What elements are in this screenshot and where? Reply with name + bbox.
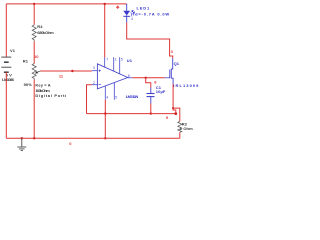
wire pin7 to top bus (104, 4, 106, 58)
svg-text:V1: V1 (10, 48, 16, 53)
junction dot pot bus (33, 137, 35, 139)
wire output jog to C1 (146, 78, 151, 88)
wire R4 to pot (33, 41, 35, 63)
resistor R2 (178, 121, 182, 132)
wire left vertical to battery (5, 4, 7, 57)
wire source to connector (173, 108, 176, 114)
svg-text:8: 8 (154, 79, 157, 84)
svg-text:7: 7 (106, 58, 108, 62)
op-amp - input stub (92, 84, 98, 86)
wire wiper to opamp + (41, 70, 92, 72)
pin 4 line (104, 86, 106, 100)
ground (17, 138, 26, 150)
resistor R4 (32, 25, 36, 41)
junction dot output (145, 77, 147, 79)
svg-text:6: 6 (128, 74, 130, 78)
wire pot bottom to bus (33, 80, 35, 139)
junction dot wiper wire (71, 70, 73, 72)
wire R4 top (33, 4, 35, 25)
junction dot source (172, 107, 174, 109)
capacitor C1 (147, 94, 155, 97)
LED LED1 anode lead (126, 4, 128, 11)
junction dot bus pin4 (104, 137, 106, 139)
op-amp - sign (99, 83, 101, 85)
svg-text:100kOhm: 100kOhm (35, 88, 50, 93)
node dot top R4 (33, 3, 35, 5)
wire bottom bus (6, 137, 180, 139)
svg-text:90%: 90% (24, 82, 33, 87)
potentiometer R1 zigzag (32, 64, 36, 80)
svg-text:9: 9 (166, 115, 169, 120)
pin 5 bottom line (113, 83, 115, 100)
pot wiper arrow (38, 71, 41, 72)
junction dot C1 connector (150, 112, 152, 114)
svg-text:IRL13009: IRL13009 (173, 83, 199, 88)
LED arrows (130, 10, 134, 15)
svg-text:LM741N: LM741N (126, 94, 139, 99)
svg-text:10: 10 (34, 54, 39, 59)
wire pin4 ground drop (104, 114, 106, 139)
svg-text:LED1: LED1 (137, 5, 150, 10)
pin 5 top line (119, 57, 121, 74)
wire battery bottom to bus (5, 72, 7, 138)
svg-text:10µF: 10µF (156, 89, 166, 94)
wire R2 bottom to bus (179, 132, 181, 138)
op-amp U1 triangle (97, 64, 127, 89)
svg-text:4: 4 (106, 95, 108, 99)
wire connector horizontal (87, 113, 176, 115)
svg-text:680kOhm: 680kOhm (37, 30, 54, 35)
pin 1 line (113, 57, 115, 71)
op-amp + sign (99, 70, 101, 72)
svg-text:1: 1 (115, 58, 117, 62)
transistor Q1 drain lead (171, 58, 172, 69)
svg-text:2: 2 (93, 81, 95, 85)
svg-text:11: 11 (59, 73, 64, 78)
svg-text:1 Ohm: 1 Ohm (180, 126, 193, 131)
svg-text:R1: R1 (23, 58, 29, 63)
capacitor C1 bottom lead (150, 97, 152, 104)
wire source down (172, 84, 174, 108)
transistor Q1 source lead (171, 78, 173, 84)
junction dot pin7 bus (104, 3, 106, 5)
wire LED cathode down right down (127, 22, 173, 58)
transistor Q1 gate stub (165, 77, 170, 79)
transistor Q1 channel bar (170, 69, 172, 79)
wire source branch to R2 (173, 108, 180, 121)
junction dot connector end (174, 112, 177, 115)
svg-text:Q1: Q1 (174, 61, 180, 66)
pin 7 line (104, 57, 106, 67)
capacitor C1 top lead (150, 88, 152, 94)
svg-text:R4: R4 (37, 24, 43, 29)
svg-text:5: 5 (115, 95, 117, 99)
wire - input feedback left (87, 85, 92, 114)
op-amp output stub (128, 77, 133, 79)
svg-text:(Id=-0.7A 0.0W: (Id=-0.7A 0.0W (131, 11, 169, 16)
junction dot pin4 connector (104, 112, 106, 114)
svg-text:3: 3 (171, 49, 174, 54)
battery V1 (1, 57, 11, 72)
wire pin4 down (104, 100, 106, 114)
red diamond probe (116, 5, 120, 9)
wire C1 bottom (150, 104, 152, 114)
svg-text:Digital Porti: Digital Porti (35, 93, 66, 98)
transistor Q1 gate bar (169, 70, 171, 79)
junction dot ground bus (21, 137, 23, 139)
svg-text:LM1086: LM1086 (2, 77, 15, 82)
wire output to gate (133, 77, 165, 79)
svg-text:4: 4 (131, 17, 133, 21)
svg-text:0: 0 (69, 141, 72, 146)
LED LED1 (123, 11, 130, 16)
op-amp + input stub (92, 70, 98, 72)
svg-text:U1: U1 (127, 58, 133, 63)
svg-text:5: 5 (121, 58, 123, 62)
svg-text:3: 3 (93, 66, 95, 70)
wire top bus (6, 3, 126, 5)
